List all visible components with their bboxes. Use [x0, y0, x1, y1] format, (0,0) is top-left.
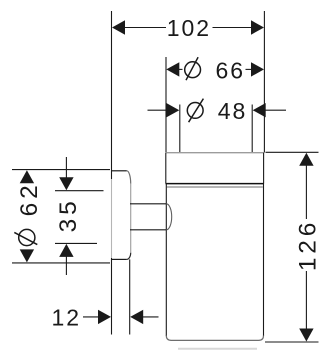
- arrowhead 62 bottom: [20, 249, 34, 262]
- wire dimension line 66 left segment: [179, 68, 183, 70]
- arrowhead 126 top: [299, 153, 313, 166]
- extension line right reference of 102 and diameter 66: [263, 11, 265, 153]
- diameter symbol of 66: [185, 62, 201, 78]
- tumbler rim outline: [166, 153, 265, 184]
- svg-text:48: 48: [218, 98, 248, 124]
- wire dimension line 66 right segment: [246, 68, 252, 70]
- svg-text:12: 12: [52, 305, 82, 331]
- holder arm stem: [130, 204, 172, 230]
- wire leader 12 left: [83, 316, 100, 318]
- arrowhead 12 right (points left): [130, 310, 143, 324]
- extension line 126 top: [266, 151, 319, 153]
- dimension diameter 66 (tumbler rim): [166, 57, 264, 153]
- arrowhead 102 left: [112, 20, 125, 34]
- extension line plate right edge below plate (right reference of 12): [129, 259, 131, 334]
- arrowhead 35 top (points down): [59, 177, 73, 190]
- dimension diameter 48 (holder ring): [148, 98, 287, 153]
- dimension 12 (plate thickness): [52, 305, 159, 331]
- wire leader 48 right: [265, 109, 286, 111]
- svg-text:102: 102: [167, 15, 211, 41]
- extension line 62 bottom: [12, 262, 110, 264]
- dimension 126 (tumbler height): [265, 152, 322, 342]
- arrowhead 35 bottom (points up): [59, 244, 73, 257]
- arrowhead 48 right (points left): [253, 103, 266, 117]
- arrowhead 102 right: [251, 20, 264, 34]
- dimension 35 (arm offset): [55, 157, 104, 275]
- tumbler body outline: [166, 184, 263, 341]
- dimension 102 (wall to tumbler front): [112, 15, 264, 41]
- arrowhead 66 left: [166, 62, 179, 76]
- extension line 126 bottom: [265, 341, 319, 343]
- wire dimension line 126 upper segment: [305, 165, 307, 220]
- wire leader 12 right: [142, 316, 159, 318]
- wire dimension line 102 left segment: [124, 27, 166, 29]
- wire dimension line 102 right segment: [213, 27, 253, 29]
- wire dimension line 35 upper overshoot: [65, 157, 67, 179]
- extension line wall (left reference of 102 / 12, runs full height): [111, 11, 113, 335]
- svg-text:126: 126: [295, 219, 322, 271]
- extension line rim left edge: [165, 57, 167, 153]
- wire dimension line 126 lower segment: [305, 271, 307, 330]
- arrowhead 66 right: [251, 62, 264, 76]
- svg-text:66: 66: [216, 57, 246, 83]
- arrowhead 126 bottom: [299, 329, 313, 342]
- svg-text:62: 62: [16, 181, 43, 216]
- wall plate outline (side view): [112, 171, 131, 260]
- extension line 48 right: [251, 105, 253, 153]
- arrowhead 12 left (points right): [98, 310, 111, 324]
- arrowhead 48 left (points right): [166, 103, 179, 117]
- extension line 35 bottom: [55, 242, 97, 244]
- arrowhead 62 top: [20, 170, 34, 183]
- diameter symbol of 48: [187, 103, 203, 119]
- wire leader 48 left: [148, 109, 168, 111]
- diameter symbol of 62 (rotated): [19, 229, 35, 245]
- svg-text:35: 35: [55, 197, 82, 232]
- extension line 48 left: [179, 105, 181, 153]
- extension line 35 top: [55, 190, 104, 192]
- dimension diameter 62 (wall plate): [12, 170, 110, 263]
- wire dimension line 35 lower overshoot: [65, 256, 67, 276]
- body bottom shadow: [178, 348, 257, 350]
- extension line 62 top: [12, 169, 110, 171]
